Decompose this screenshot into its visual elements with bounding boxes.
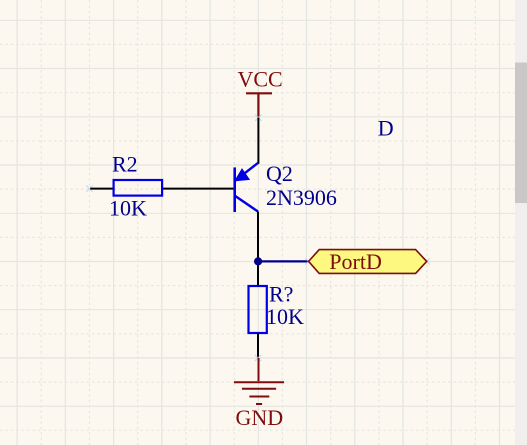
connection marker wire end (86, 185, 92, 191)
scrollbar track (515, 0, 527, 445)
power symbol VCC (246, 93, 272, 117)
resistor R2 (114, 180, 163, 196)
svg-text:PortD: PortD (329, 249, 382, 274)
svg-text:D: D (378, 115, 394, 140)
connection marker GND (255, 355, 261, 361)
wire node to port (258, 260, 308, 262)
node junction (254, 257, 262, 265)
transistor Q2 (235, 163, 259, 212)
wire R? to GND (257, 333, 259, 358)
svg-text:R2: R2 (112, 152, 138, 177)
svg-text:Q2: Q2 (266, 161, 293, 186)
wire Q2 collector to node (257, 212, 259, 262)
ground (234, 358, 284, 404)
svg-text:R?: R? (269, 282, 293, 307)
wire to R2 left (90, 188, 113, 190)
connection marker port left (305, 258, 311, 264)
wire VCC to Q2 emitter (257, 118, 259, 164)
wire node to R? (257, 261, 259, 286)
svg-text:GND: GND (236, 405, 284, 430)
port PortD (309, 250, 427, 274)
wire R2 to Q2 base (163, 188, 233, 190)
connection marker port right (424, 258, 430, 264)
scrollbar thumb (515, 63, 527, 204)
svg-text:VCC: VCC (238, 66, 283, 91)
svg-text:2N3906: 2N3906 (266, 185, 337, 210)
svg-text:10K: 10K (266, 304, 304, 329)
resistor R? (249, 286, 267, 333)
connection marker VCC (255, 115, 261, 121)
svg-text:10K: 10K (109, 196, 147, 221)
